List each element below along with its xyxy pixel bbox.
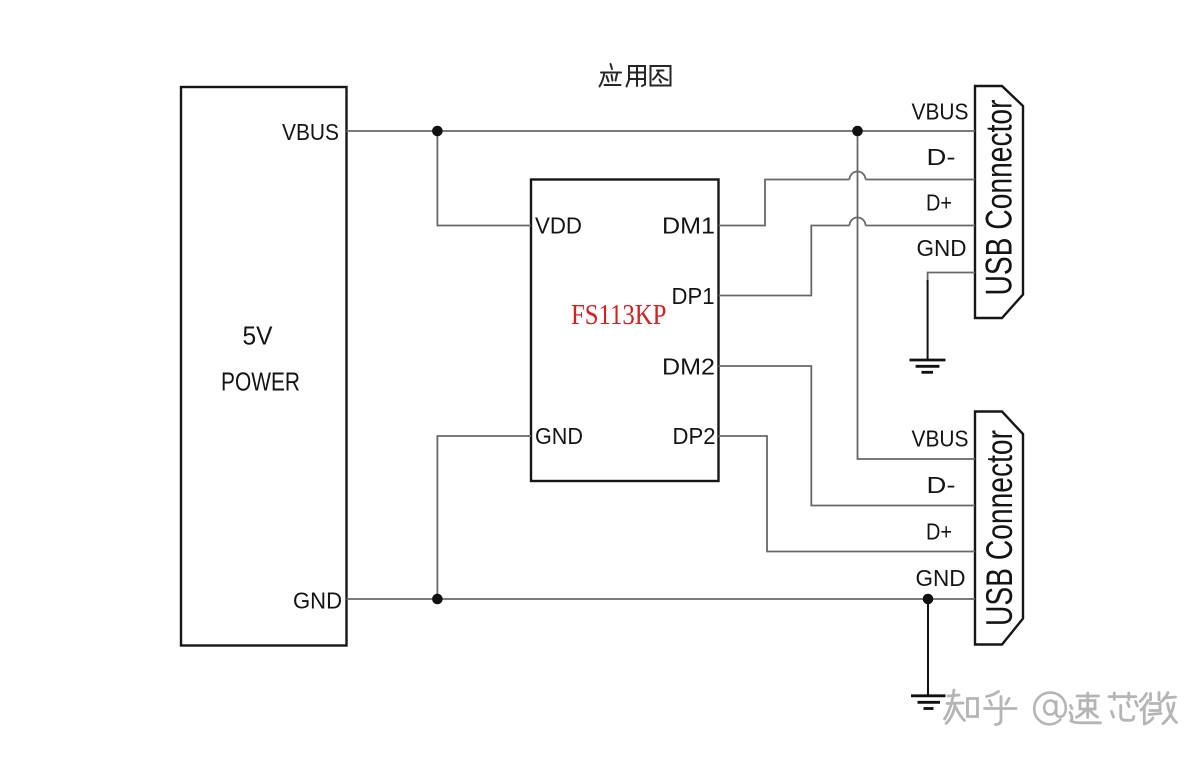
wire DM2 to D- J2 [719,366,976,506]
芯 [1113,693,1116,700]
svg-text:D-: D- [927,472,956,498]
svg-text:D+: D+ [926,190,952,216]
svg-text:USB Connector: USB Connector [979,430,1020,626]
junction node GND/earth [923,594,934,605]
知 [948,695,959,696]
wire VDD branch [437,131,531,226]
svg-text:DM2: DM2 [662,354,715,380]
junction node GND/chip [432,594,443,605]
wire VBUS main [347,130,976,132]
svg-text:GND: GND [917,235,967,261]
svg-text:GND: GND [293,588,342,614]
svg-text:VBUS: VBUS [912,99,969,125]
wire GND J1 [928,273,975,284]
速 [1071,706,1073,709]
svg-text:VBUS: VBUS [282,119,339,145]
ground symbol (J2) [911,599,946,709]
title 应用图 [600,64,671,87]
wire DP2 to D+ J2 [719,436,976,552]
watermark 知乎 @速芯微 [945,690,1017,725]
5V POWER box [181,87,347,646]
wire DM1 to D- J1 [719,180,850,226]
@ [1034,693,1066,725]
svg-text:VBUS: VBUS [912,426,969,452]
wire VBUS J2 branch [858,131,976,459]
微 [1140,694,1147,702]
svg-text:DP1: DP1 [672,283,715,309]
chip U1 box [531,180,719,482]
svg-text:5V: 5V [243,321,274,351]
wire GND chip branch [437,436,531,599]
USB connector J2 (bottom) [975,412,1023,645]
svg-text:GND: GND [916,565,966,591]
svg-text:POWER: POWER [221,367,300,397]
USB connector J1 (top) [975,86,1023,318]
wire DP1 to D+ J1 [719,226,850,296]
svg-text:D+: D+ [926,519,952,545]
svg-text:GND: GND [535,423,583,449]
svg-text:D-: D- [927,144,956,170]
乎 [987,692,999,697]
wire GND main [347,598,976,600]
svg-text:DP2: DP2 [673,423,716,449]
svg-text:FS113KP: FS113KP [571,299,667,331]
svg-text:USB Connector: USB Connector [979,100,1020,296]
junction node VBUS/J2 [852,126,863,137]
svg-text:DM1: DM1 [662,213,715,239]
ground symbol (J1) [910,280,946,372]
svg-text:VDD: VDD [535,213,582,239]
junction node VBUS/VDD [432,126,443,137]
